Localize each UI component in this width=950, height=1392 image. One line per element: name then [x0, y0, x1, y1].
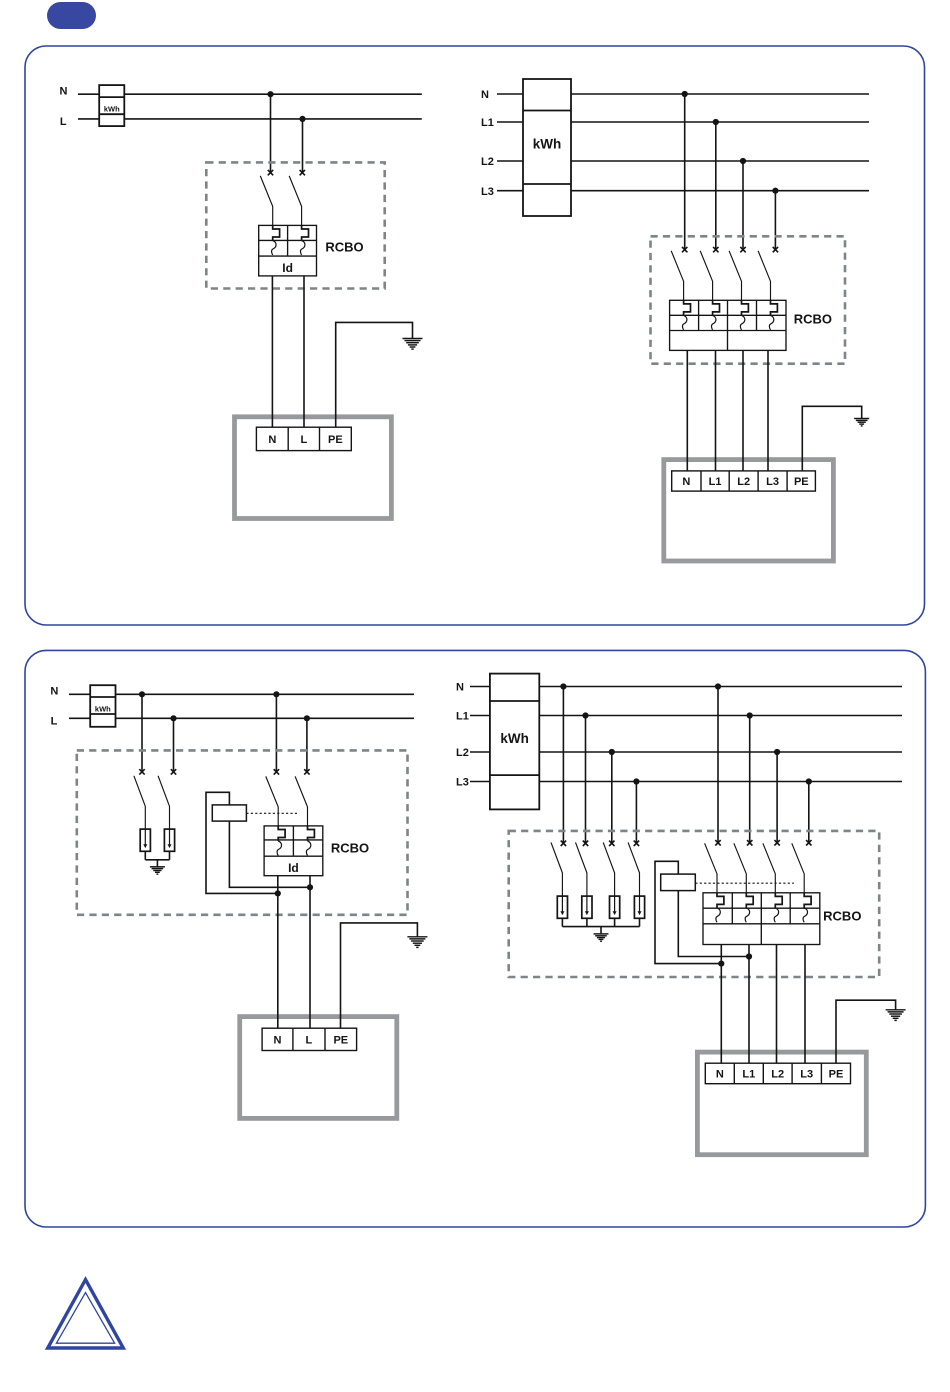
svg-text:RCBO: RCBO [331, 840, 369, 855]
surge arrester L (diagram 3) [164, 829, 174, 851]
terminal block N-L1-L2-L3-PE (diagram 2) [672, 471, 816, 491]
RCBO 2-pole body (diagram 3) [264, 826, 323, 876]
overcurrent+magnetic element pole N (diagram 1) [272, 225, 280, 255]
svg-text:L2: L2 [737, 476, 750, 488]
wire L1 drop to RCBO (diagram 4) [749, 716, 751, 844]
node L2 tap to arrester (diagram 4) [609, 749, 615, 755]
surge arrester N (diagram 4) [557, 896, 567, 918]
element pole L (diagram 3) [306, 826, 314, 856]
wire earth stub (diagram 3) [156, 860, 158, 867]
svg-text:N: N [682, 476, 690, 488]
wire trip coil bottom to L1 output (diagram 4) [678, 891, 749, 957]
switch blade pole N (diagram 4) [705, 843, 717, 893]
wire trip coil top to N output (diagram 4) [655, 861, 721, 963]
svg-text:PE: PE [794, 476, 809, 488]
wire L2 drop to RCBO (diagram 4) [776, 752, 778, 843]
node L tap to arrester (diagram 3) [170, 715, 176, 721]
node L3 tap (diagram 2) [772, 188, 778, 194]
wire arrester L1 to earth bar (diagram 4) [586, 918, 588, 926]
contact x pole N (diagram 2) [682, 247, 687, 252]
wire L3 bus (diagram 2) [497, 190, 869, 192]
contact x pole N (diagram 1) [268, 170, 273, 175]
panel 1 border (top) [25, 46, 925, 625]
contact x RCBO L3 (diagram 4) [806, 840, 811, 845]
earth ground symbol PE (diagram 2) [854, 419, 869, 426]
wire L3 drop to arrester (diagram 4) [635, 782, 637, 844]
wire arrester earth bar (diagram 4) [562, 926, 639, 928]
wire L3 output (diagram 2) [767, 350, 769, 471]
energy meter kWh (diagram 3) [90, 685, 115, 727]
svg-text:RCBO: RCBO [794, 312, 832, 327]
svg-text:N: N [481, 89, 489, 101]
svg-text:PE: PE [333, 1034, 348, 1046]
disconnect blade arrester L (diagram 3) [158, 776, 169, 829]
wire L1 drop to arrester (diagram 4) [585, 716, 587, 844]
wire N drop to breaker (diagram 1) [270, 94, 272, 173]
wire L drop to RCBO (diagram 3) [306, 718, 308, 772]
svg-text:L: L [306, 1034, 313, 1046]
wire L1 bus (diagram 2) [497, 121, 869, 123]
switch blade pole N (diagram 3) [266, 776, 278, 826]
svg-text:L2: L2 [481, 156, 494, 168]
protection enclosure dashed box (diagram 3) [77, 750, 408, 914]
node trip coil to N output (diagram 4) [718, 961, 724, 967]
energy meter kWh (diagram 1) [99, 85, 124, 126]
disconnect blade arrester L2 (diagram 4) [603, 842, 614, 896]
svg-text:L3: L3 [766, 476, 779, 488]
svg-text:L2: L2 [456, 747, 469, 759]
wire L1 bus (diagram 4) [470, 715, 902, 717]
overcurrent+magnetic element pole L (diagram 1) [300, 225, 308, 255]
terminal block N-L-PE (diagram 3) [262, 1028, 357, 1050]
node L1 tap to arrester (diagram 4) [582, 712, 588, 718]
wire L output to load (diagram 1) [303, 276, 305, 427]
node L tap to RCBO (diagram 3) [304, 715, 310, 721]
node N tap (diagram 1) [267, 91, 273, 97]
node N tap to arrester (diagram 4) [560, 683, 566, 689]
switch blade pole L3 (diagram 4) [792, 843, 804, 893]
node N tap to arrester (diagram 3) [139, 691, 145, 697]
trip coil box (diagram 3) [212, 805, 246, 821]
node L2 tap (diagram 2) [740, 158, 746, 164]
wire L2 output (diagram 2) [742, 350, 744, 471]
contact x pole L1 (diagram 2) [713, 247, 718, 252]
brand logo double triangle [48, 1280, 124, 1348]
element pole L3 (diagram 4) [803, 893, 811, 923]
wire L drop to arrester (diagram 3) [173, 718, 175, 772]
contact x arrester N (diagram 4) [561, 841, 566, 846]
svg-text:PE: PE [328, 434, 343, 446]
wire N output (diagram 2) [686, 350, 688, 471]
node L3 tap to RCBO (diagram 4) [806, 778, 812, 784]
element pole L1 (diagram 4) [745, 893, 753, 923]
svg-text:Id: Id [282, 261, 293, 275]
wire N drop to RCBO (diagram 3) [275, 694, 277, 772]
svg-text:RCBO: RCBO [823, 909, 861, 924]
protection enclosure dashed box (diagram 4) [509, 831, 880, 977]
element pole L2 (diagram 4) [774, 893, 782, 923]
svg-text:N: N [716, 1068, 724, 1080]
wire PE to earth (diagram 1) [336, 322, 413, 427]
disconnect blade arrester L1 (diagram 4) [576, 842, 587, 896]
wire arrester L2 to earth bar (diagram 4) [614, 918, 616, 926]
panel 2 border (bottom) [25, 650, 925, 1227]
terminal block N-L1-L2-L3-PE (diagram 4) [705, 1063, 850, 1084]
page corner pill badge [47, 2, 96, 29]
wire N bus (diagram 4) [470, 686, 902, 688]
wire L1 output to load (diagram 4) [748, 945, 750, 1064]
wire L2 bus (diagram 4) [470, 751, 902, 753]
wire earth stub (diagram 4) [600, 927, 602, 934]
svg-text:L: L [60, 116, 67, 128]
terminal block N-L-PE (diagram 1) [256, 427, 351, 450]
wire L2 drop to arrester (diagram 4) [611, 752, 613, 844]
svg-text:PE: PE [829, 1068, 844, 1080]
load appliance box (diagram 3) [240, 1017, 397, 1119]
wire L2 drop (diagram 2) [742, 161, 744, 250]
svg-text:L3: L3 [456, 777, 469, 789]
contact x RCBO L1 (diagram 4) [747, 840, 752, 845]
contact x pole L2 (diagram 2) [740, 247, 745, 252]
load appliance box (diagram 4) [697, 1052, 866, 1155]
contact x RCBO N (diagram 3) [274, 769, 279, 774]
wire PE to earth (diagram 2) [802, 406, 861, 471]
energy meter kWh 3-phase (diagram 2) [523, 79, 571, 216]
wire L1 output (diagram 2) [715, 350, 717, 471]
switch blade pole L3 (diagram 2) [758, 251, 770, 300]
surge arrester N (diagram 3) [140, 829, 150, 851]
RCBO 4-pole body (diagram 4) [703, 893, 820, 945]
node trip coil to L1 output (diagram 4) [746, 953, 752, 959]
surge arrester L2 (diagram 4) [610, 896, 620, 918]
element pole N (diagram 2) [682, 300, 690, 330]
earth ground symbol PE (diagram 1) [403, 339, 423, 350]
node L1 tap (diagram 2) [713, 119, 719, 125]
contact x RCBO N (diagram 4) [715, 840, 720, 845]
wire L3 bus (diagram 4) [470, 781, 902, 783]
wire N drop to RCBO (diagram 4) [717, 687, 719, 844]
node N tap to RCBO (diagram 3) [273, 691, 279, 697]
earth ground symbol arresters (diagram 4) [594, 934, 609, 941]
svg-text:N: N [274, 1034, 282, 1046]
contact x arrester L3 (diagram 4) [634, 841, 639, 846]
wire N drop to arrester (diagram 4) [562, 687, 564, 844]
wire N bus (diagram 1) [78, 93, 422, 95]
svg-text:N: N [456, 682, 464, 694]
contact x RCBO L2 (diagram 4) [774, 840, 779, 845]
RCBO 4-pole body (diagram 2) [670, 300, 786, 350]
svg-text:Id: Id [288, 861, 299, 875]
svg-text:L1: L1 [742, 1068, 755, 1080]
wire arrester N to earth bar (diagram 3) [144, 851, 146, 860]
wire N drop to arrester (diagram 3) [141, 694, 143, 772]
svg-text:L2: L2 [771, 1068, 784, 1080]
earth ground symbol arresters (diagram 3) [150, 867, 165, 874]
mechanical link dotted (diagram 3) [246, 812, 298, 814]
wire L bus (diagram 3) [69, 717, 414, 719]
contact x arrester L2 (diagram 4) [609, 841, 614, 846]
svg-text:L1: L1 [481, 117, 494, 129]
svg-text:N: N [60, 85, 68, 97]
node L2 tap to RCBO (diagram 4) [774, 749, 780, 755]
wire N output to load (diagram 1) [271, 276, 273, 427]
wire trip coil top to N output (diagram 3) [206, 792, 278, 893]
switch blade pole L (diagram 3) [295, 776, 307, 826]
disconnect blade arrester N (diagram 4) [551, 842, 562, 896]
RCBO 2-pole body (diagram 1) [259, 225, 317, 276]
svg-text:L: L [51, 715, 58, 727]
element pole N (diagram 3) [277, 826, 285, 856]
node N tap to RCBO (diagram 4) [715, 683, 721, 689]
switch blade pole L1 (diagram 2) [700, 251, 712, 300]
contact x arrester L (diagram 3) [171, 769, 176, 774]
energy meter kWh 3-phase (diagram 4) [490, 674, 539, 810]
wire PE to earth (diagram 4) [836, 1000, 896, 1063]
switch blade pole N (diagram 1) [260, 176, 272, 226]
svg-text:N: N [268, 434, 276, 446]
wire L2 bus (diagram 2) [497, 160, 869, 162]
svg-text:kWh: kWh [500, 731, 529, 746]
svg-text:L3: L3 [800, 1068, 813, 1080]
svg-text:kWh: kWh [533, 137, 562, 152]
surge arrester L3 (diagram 4) [634, 896, 644, 918]
wire PE to earth (diagram 3) [341, 923, 418, 1028]
wire L3 drop to RCBO (diagram 4) [808, 782, 810, 844]
disconnect blade arrester L3 (diagram 4) [628, 842, 639, 896]
svg-text:kWh: kWh [104, 105, 120, 114]
node trip coil to N output (diagram 3) [275, 890, 281, 896]
wire L output to load (diagram 3) [309, 876, 311, 1028]
contact x RCBO L (diagram 3) [304, 769, 309, 774]
contact x pole L (diagram 1) [300, 170, 305, 175]
switch blade pole N (diagram 2) [671, 251, 683, 300]
switch blade pole L (diagram 1) [289, 176, 301, 226]
node L3 tap to arrester (diagram 4) [633, 778, 639, 784]
svg-text:N: N [50, 686, 58, 698]
RCBO enclosure dashed box (diagram 1) [206, 162, 384, 288]
svg-text:RCBO: RCBO [325, 240, 363, 255]
svg-text:L1: L1 [709, 476, 722, 488]
element pole N (diagram 4) [716, 893, 724, 923]
element pole L2 (diagram 2) [740, 300, 748, 330]
contact x pole L3 (diagram 2) [773, 247, 778, 252]
wire arrester earth bar (diagram 3) [145, 859, 169, 861]
trip coil box (diagram 4) [661, 874, 696, 891]
wire trip coil bottom to L output (diagram 3) [229, 821, 310, 887]
surge arrester L1 (diagram 4) [582, 896, 592, 918]
node N tap (diagram 2) [682, 91, 688, 97]
wire arrester L to earth bar (diagram 3) [169, 851, 171, 860]
wire L1 drop (diagram 2) [715, 122, 717, 250]
wire L bus (diagram 1) [78, 118, 422, 120]
wire arrester N to earth bar (diagram 4) [561, 918, 563, 926]
wire L3 output to load (diagram 4) [804, 945, 806, 1064]
node L1 tap to RCBO (diagram 4) [747, 712, 753, 718]
switch blade pole L2 (diagram 4) [763, 843, 775, 893]
earth ground symbol PE (diagram 4) [886, 1010, 906, 1021]
load appliance box (diagram 2) [664, 460, 834, 561]
earth ground symbol PE (diagram 3) [407, 937, 427, 948]
wire N output to load (diagram 4) [720, 945, 722, 1064]
wire L3 drop (diagram 2) [774, 191, 776, 250]
disconnect blade arrester N (diagram 3) [134, 776, 145, 829]
switch blade pole L2 (diagram 2) [729, 251, 741, 300]
wire N drop (diagram 2) [684, 94, 686, 250]
node trip coil to L output (diagram 3) [307, 884, 313, 890]
wire N bus (diagram 3) [69, 693, 414, 695]
element pole L3 (diagram 2) [769, 300, 777, 330]
load appliance box (diagram 1) [235, 417, 392, 519]
contact x arrester L1 (diagram 4) [583, 841, 588, 846]
mechanical link dotted (diagram 4) [695, 882, 794, 884]
element pole L1 (diagram 2) [711, 300, 719, 330]
svg-text:L3: L3 [481, 186, 494, 198]
wire L drop to breaker (diagram 1) [302, 119, 304, 173]
svg-text:kWh: kWh [95, 704, 111, 713]
wire L2 output to load (diagram 4) [776, 945, 778, 1064]
svg-text:L: L [300, 434, 307, 446]
contact x arrester N (diagram 3) [139, 769, 144, 774]
wire arrester L3 to earth bar (diagram 4) [639, 918, 641, 926]
node L tap (diagram 1) [299, 116, 305, 122]
switch blade pole L1 (diagram 4) [734, 843, 746, 893]
wire N output to load (diagram 3) [277, 876, 279, 1028]
RCBO enclosure dashed box (diagram 2) [651, 236, 846, 363]
wire N bus (diagram 2) [497, 93, 869, 95]
svg-text:L1: L1 [456, 711, 469, 723]
